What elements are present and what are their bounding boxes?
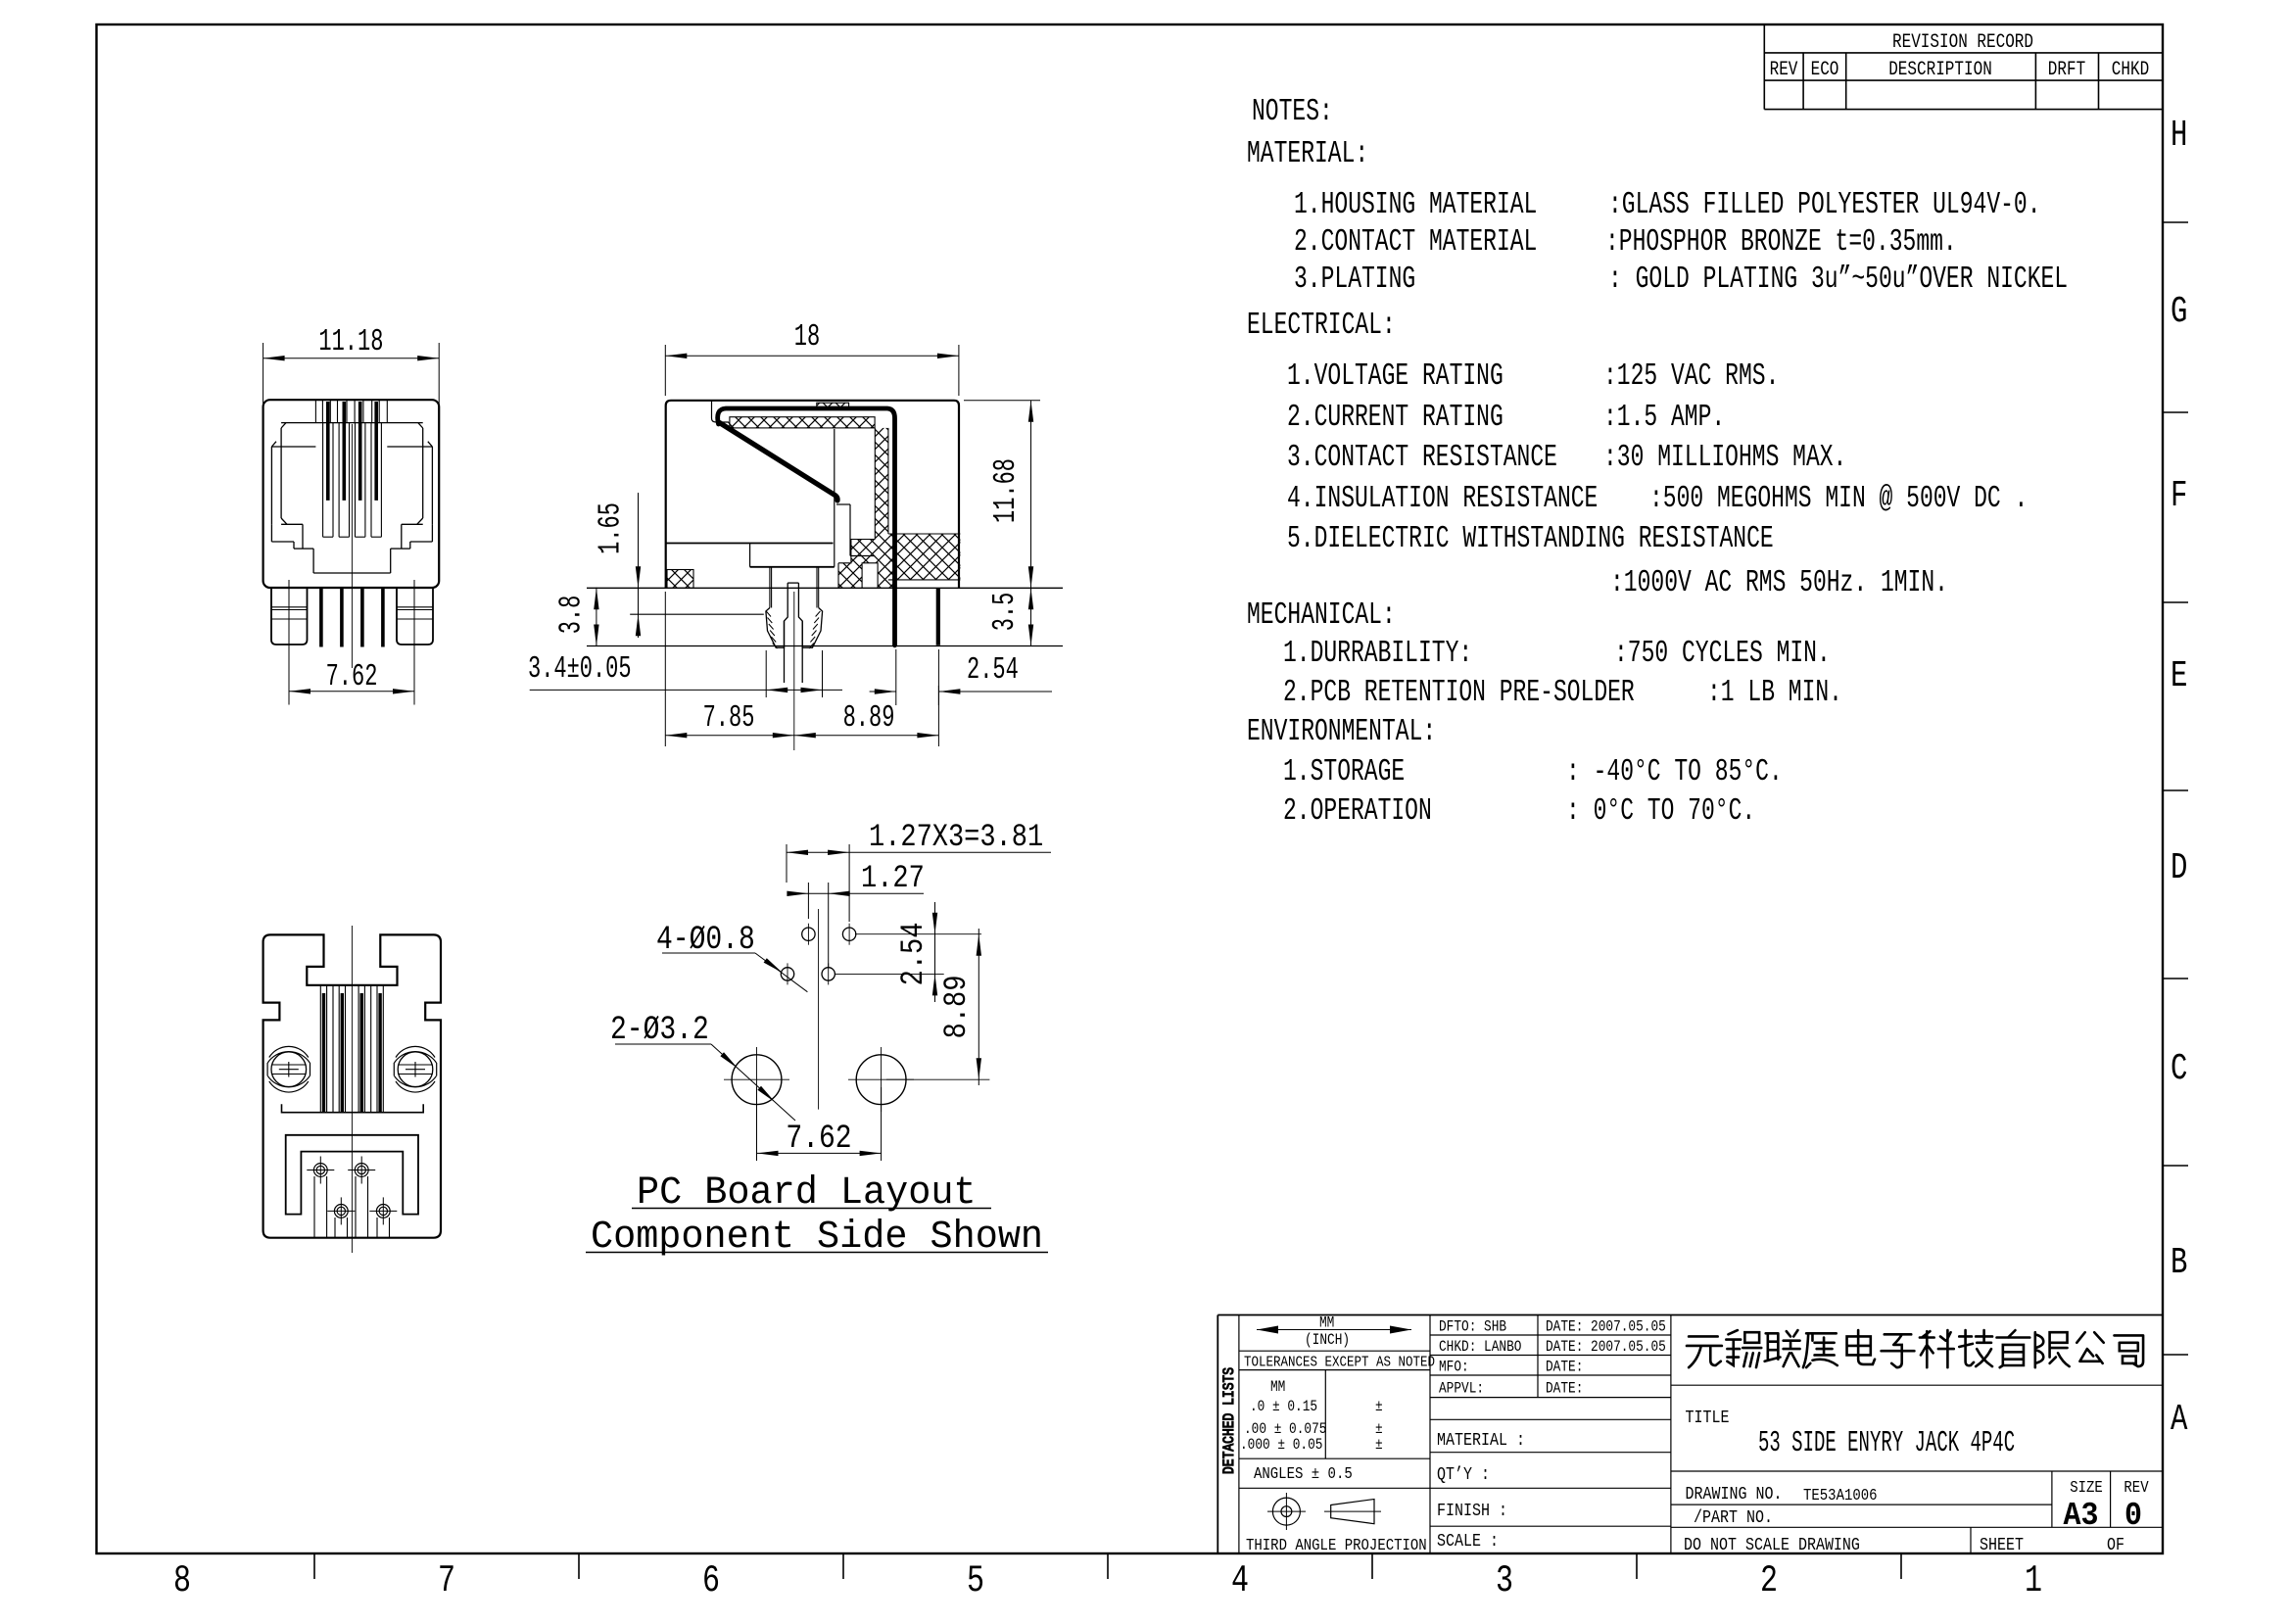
- bottom view body outline: [263, 934, 441, 1237]
- svg-text:DRAWING NO.: DRAWING NO.: [1686, 1485, 1783, 1505]
- svg-text:APPVL:: APPVL:: [1439, 1381, 1484, 1398]
- bottom view pins: [324, 993, 381, 1113]
- bottom view comb: [320, 985, 383, 1113]
- svg-text:1.STORAGE: 1.STORAGE: [1283, 755, 1405, 789]
- svg-text:2.54: 2.54: [895, 923, 931, 986]
- dimension 8.89: [794, 686, 939, 746]
- svg-text:4: 4: [1231, 1560, 1249, 1603]
- dimension 2.54 side: [870, 649, 1052, 705]
- revision record table: [1764, 24, 2163, 109]
- svg-text:11.68: 11.68: [990, 458, 1025, 523]
- svg-text:DFTO: SHB: DFTO: SHB: [1439, 1319, 1506, 1336]
- svg-text:3.CONTACT RESISTANCE: 3.CONTACT RESISTANCE: [1287, 441, 1557, 475]
- bottom view pin holes: [307, 1157, 397, 1225]
- bottom view skirt line: [282, 1104, 424, 1112]
- revision record labels: [1770, 32, 2150, 81]
- svg-text:QT’Y :: QT’Y :: [1437, 1465, 1490, 1486]
- dimension 7.85: [665, 592, 794, 746]
- svg-text::1 LB MIN.: :1 LB MIN.: [1707, 676, 1842, 710]
- pcb board lines: [587, 588, 1063, 645]
- svg-text:CHKD: CHKD: [2112, 60, 2149, 81]
- pcb layout centerline: [818, 909, 820, 1110]
- svg-text:1.VOLTAGE RATING: 1.VOLTAGE RATING: [1287, 359, 1503, 394]
- svg-text:2: 2: [1760, 1560, 1778, 1603]
- zone ticks bottom: [314, 1553, 1901, 1579]
- dimension 3.5: [989, 588, 1033, 645]
- pcb layout small holes: [781, 924, 856, 985]
- svg-text:1.65: 1.65: [595, 502, 629, 554]
- svg-text:3: 3: [1496, 1560, 1513, 1603]
- zone numbers bottom: [173, 1560, 2042, 1603]
- side view contact spring: [718, 408, 895, 645]
- dimension 8.89 pcb: [938, 929, 981, 1085]
- svg-text:MM: MM: [1270, 1379, 1285, 1396]
- title block grid: [1217, 1315, 2163, 1554]
- svg-text:1.DURRABILITY:: 1.DURRABILITY:: [1283, 637, 1472, 671]
- dimension 7.62 front: [289, 580, 414, 705]
- svg-text:2.CURRENT RATING: 2.CURRENT RATING: [1287, 401, 1503, 435]
- title block small labels: [1240, 1315, 1666, 1555]
- svg-text:.00 ± 0.075: .00 ± 0.075: [1244, 1421, 1326, 1438]
- side view interior lines: [712, 401, 876, 567]
- svg-text:1.27: 1.27: [861, 860, 925, 896]
- svg-text:ECO: ECO: [1811, 60, 1839, 81]
- svg-text:3.4±0.05: 3.4±0.05: [528, 653, 632, 688]
- pcb layout big holes: [724, 1047, 914, 1112]
- svg-text:E: E: [2171, 656, 2187, 698]
- svg-text:DATE: 2007.05.05: DATE: 2007.05.05: [1546, 1339, 1666, 1356]
- svg-text:DATE:: DATE:: [1546, 1381, 1583, 1398]
- pcb layout caption: [586, 1170, 1048, 1260]
- svg-text:SHEET: SHEET: [1980, 1536, 2024, 1556]
- svg-text:NOTES:: NOTES:: [1252, 95, 1333, 129]
- dimension 7.62 pcb: [757, 1087, 882, 1161]
- svg-text:.000 ± 0.05: .000 ± 0.05: [1240, 1437, 1322, 1454]
- svg-text:53 SIDE ENYRY JACK 4P4C: 53 SIDE ENYRY JACK 4P4C: [1758, 1426, 2015, 1460]
- svg-text:±: ±: [1375, 1421, 1383, 1438]
- svg-text:DATE: 2007.05.05: DATE: 2007.05.05: [1546, 1319, 1666, 1336]
- front view mounting legs: [271, 588, 433, 645]
- svg-text:7: 7: [438, 1560, 455, 1603]
- svg-text:DO NOT SCALE DRAWING: DO NOT SCALE DRAWING: [1684, 1536, 1860, 1556]
- side view pcb retention post: [766, 567, 823, 683]
- svg-text:2.OPERATION: 2.OPERATION: [1283, 794, 1432, 829]
- svg-text::30 MILLIOHMS MAX.: :30 MILLIOHMS MAX.: [1603, 441, 1846, 475]
- svg-text:6: 6: [702, 1560, 720, 1603]
- svg-text:1: 1: [2025, 1560, 2042, 1603]
- dimension 1.27X3=3.81: [787, 819, 1051, 922]
- dimension 3.8: [555, 588, 598, 646]
- svg-text:SCALE :: SCALE :: [1437, 1532, 1499, 1552]
- bottom view pin channels lower: [314, 1176, 390, 1238]
- front view jack cavity: [271, 423, 432, 573]
- svg-text:1.HOUSING MATERIAL: 1.HOUSING MATERIAL: [1294, 188, 1537, 222]
- side view hatch outlines: [667, 417, 960, 589]
- svg-text:3.PLATING: 3.PLATING: [1294, 263, 1415, 297]
- dimension 2.54 pcb: [895, 902, 937, 1002]
- svg-text:8: 8: [173, 1560, 191, 1603]
- svg-text:7.62: 7.62: [786, 1121, 851, 1158]
- front view centerline: [351, 424, 353, 668]
- leader 4-Ø0.8: [656, 922, 807, 992]
- svg-text:FINISH :: FINISH :: [1437, 1502, 1507, 1522]
- svg-text:±: ±: [1375, 1399, 1383, 1415]
- svg-text:A: A: [2171, 1400, 2188, 1442]
- svg-text:18: 18: [794, 321, 820, 356]
- svg-text:8.89: 8.89: [843, 702, 895, 737]
- svg-text:±: ±: [1375, 1437, 1383, 1454]
- svg-text:8.89: 8.89: [938, 976, 975, 1039]
- svg-text::1000V AC RMS 50Hz. 1MIN.: :1000V AC RMS 50Hz. 1MIN.: [1610, 566, 1948, 600]
- svg-text:: 0°C TO 70°C.: : 0°C TO 70°C.: [1566, 794, 1755, 829]
- svg-text:B: B: [2171, 1243, 2187, 1285]
- svg-text::500 MEGOHMS MIN @ 500V DC .: :500 MEGOHMS MIN @ 500V DC .: [1649, 482, 2028, 516]
- svg-text:2.CONTACT MATERIAL: 2.CONTACT MATERIAL: [1294, 225, 1537, 260]
- svg-text:H: H: [2171, 116, 2187, 158]
- svg-text:REV: REV: [1770, 60, 1798, 81]
- svg-text:7.62: 7.62: [326, 661, 378, 695]
- svg-text:3.5: 3.5: [989, 593, 1024, 632]
- svg-text:1.27X3=3.81: 1.27X3=3.81: [869, 819, 1043, 855]
- side view right solder pin: [936, 588, 940, 645]
- bottom view centerline: [351, 926, 353, 1253]
- dimension 18: [665, 321, 959, 396]
- dimension 1.27: [787, 860, 924, 968]
- front view pin channels: [323, 423, 382, 538]
- side view hatch pattern fills: [667, 417, 960, 589]
- svg-text:5.DIELECTRIC WITHSTANDING RESI: 5.DIELECTRIC WITHSTANDING RESISTANCE: [1287, 522, 1774, 556]
- svg-text:OF: OF: [2107, 1536, 2124, 1556]
- svg-text:C: C: [2171, 1049, 2187, 1091]
- svg-text:DETACHED LISTS: DETACHED LISTS: [1221, 1367, 1238, 1474]
- svg-text:DATE:: DATE:: [1546, 1360, 1583, 1376]
- svg-text:4.INSULATION RESISTANCE: 4.INSULATION RESISTANCE: [1287, 482, 1598, 516]
- svg-text:MFO:: MFO:: [1439, 1360, 1469, 1376]
- front view pin comb: [315, 400, 387, 422]
- svg-text:3.8: 3.8: [555, 596, 590, 635]
- svg-text:CHKD: LANBO: CHKD: LANBO: [1439, 1339, 1521, 1356]
- svg-text:5: 5: [967, 1560, 984, 1603]
- dimension 11.18: [263, 326, 440, 405]
- svg-text:MATERIAL:: MATERIAL:: [1247, 137, 1368, 171]
- dimension 11.68: [964, 401, 1040, 589]
- svg-text:D: D: [2171, 848, 2187, 890]
- title text: [1684, 1409, 2149, 1556]
- svg-text::GLASS FILLED POLYESTER UL94V-: :GLASS FILLED POLYESTER UL94V-0.: [1608, 188, 2041, 222]
- svg-text:2.PCB RETENTION PRE-SOLDER: 2.PCB RETENTION PRE-SOLDER: [1283, 676, 1635, 710]
- dimension 1.65: [595, 493, 641, 638]
- zone ticks right: [2163, 222, 2188, 1355]
- dimension 3.4±0.05: [528, 650, 842, 697]
- svg-text:11.18: 11.18: [318, 326, 383, 360]
- pcb hole leader lines: [835, 934, 989, 1079]
- svg-text:/PART NO.: /PART NO.: [1694, 1508, 1773, 1529]
- third angle projection symbol: [1267, 1493, 1381, 1530]
- svg-text:F: F: [2171, 476, 2187, 518]
- side view body outline: [666, 401, 959, 589]
- svg-text:: GOLD PLATING 3u”~50u”OVER N: : GOLD PLATING 3u”~50u”OVER NICKEL: [1608, 263, 2068, 297]
- side view centerline post: [793, 592, 795, 750]
- mm inch arrow symbol: [1257, 1326, 1411, 1334]
- svg-text:DESCRIPTION: DESCRIPTION: [1888, 60, 1992, 81]
- svg-text:TITLE: TITLE: [1686, 1409, 1730, 1429]
- svg-text:(INCH): (INCH): [1305, 1332, 1350, 1349]
- svg-text::PHOSPHOR BRONZE t=0.35mm.: :PHOSPHOR BRONZE t=0.35mm.: [1605, 225, 1957, 260]
- leader 2-Ø3.2: [610, 1012, 795, 1121]
- svg-text:2-Ø3.2: 2-Ø3.2: [610, 1012, 709, 1049]
- svg-text:ENVIRONMENTAL:: ENVIRONMENTAL:: [1247, 715, 1436, 749]
- svg-text:MECHANICAL:: MECHANICAL:: [1247, 598, 1396, 633]
- bottom view left screw boss: [267, 1046, 437, 1092]
- svg-text:.0 ± 0.15: .0 ± 0.15: [1250, 1399, 1317, 1415]
- svg-text:7.85: 7.85: [703, 702, 755, 737]
- notes text block: [1247, 95, 2068, 829]
- svg-text:TOLERANCES EXCEPT AS NOTED: TOLERANCES EXCEPT AS NOTED: [1244, 1356, 1435, 1371]
- svg-text::750 CYCLES MIN.: :750 CYCLES MIN.: [1614, 637, 1831, 671]
- svg-text:THIRD ANGLE PROJECTION: THIRD ANGLE PROJECTION: [1246, 1536, 1427, 1555]
- svg-text:2.54: 2.54: [967, 654, 1019, 689]
- svg-text:0: 0: [2124, 1499, 2142, 1535]
- front view contact pins: [328, 402, 376, 501]
- svg-text:ANGLES ± 0.5: ANGLES ± 0.5: [1254, 1464, 1353, 1484]
- svg-text:G: G: [2171, 292, 2187, 334]
- svg-text:ELECTRICAL:: ELECTRICAL:: [1247, 309, 1396, 343]
- bottom view lower housing: [286, 1135, 418, 1215]
- svg-text:TE53A1006: TE53A1006: [1803, 1486, 1878, 1505]
- front view solder pins: [321, 587, 383, 647]
- svg-text:A3: A3: [2064, 1499, 2099, 1535]
- side view line 627: [630, 613, 764, 615]
- svg-text:MATERIAL :: MATERIAL :: [1437, 1431, 1525, 1452]
- company name: [1687, 1330, 2143, 1367]
- svg-text:REV: REV: [2124, 1478, 2149, 1498]
- svg-text::1.5 AMP.: :1.5 AMP.: [1603, 401, 1725, 435]
- svg-text:DRFT: DRFT: [2048, 60, 2086, 81]
- svg-text:REVISION RECORD: REVISION RECORD: [1892, 32, 2033, 54]
- svg-text::125 VAC RMS.: :125 VAC RMS.: [1603, 359, 1779, 394]
- svg-text:SIZE: SIZE: [2070, 1478, 2103, 1498]
- zone letters right: [2171, 116, 2188, 1442]
- svg-text:: -40°C TO 85°C.: : -40°C TO 85°C.: [1566, 755, 1783, 789]
- front view connector body: [263, 400, 440, 588]
